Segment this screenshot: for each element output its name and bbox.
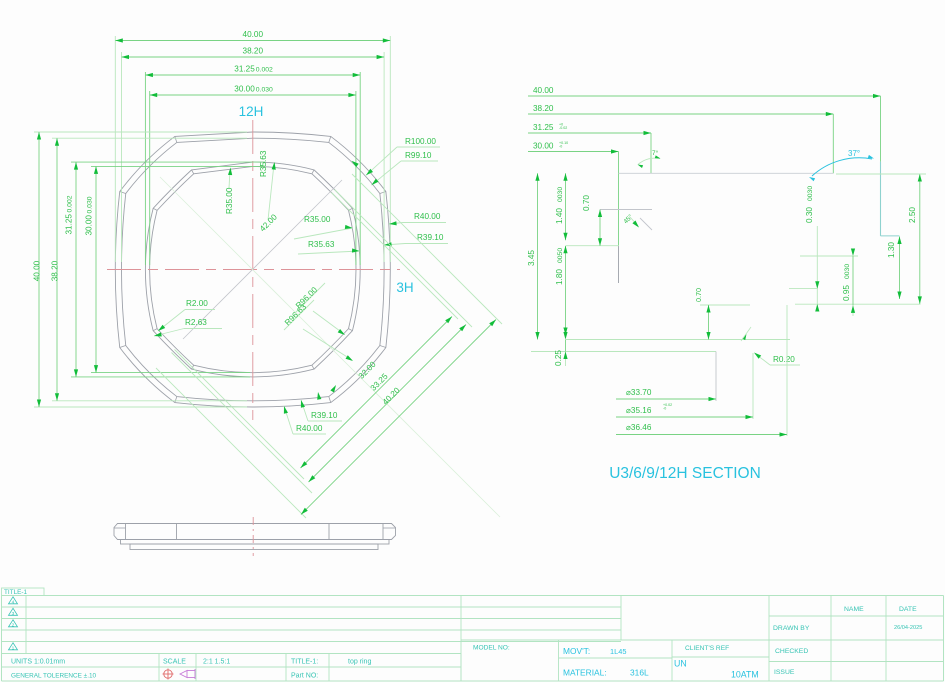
svg-text:ISSUE: ISSUE [774, 669, 795, 676]
svg-text:GENERAL TOLERENCE ±.10: GENERAL TOLERENCE ±.10 [11, 673, 97, 680]
section profile lines bottom [531, 210, 921, 464]
radius label R39.10 [384, 233, 448, 246]
radius label R99.10 [372, 151, 439, 185]
svg-text:TITLE-1: TITLE-1 [4, 589, 28, 596]
svg-text:0030: 0030 [807, 186, 814, 201]
symbol first-angle target [163, 669, 174, 680]
side view step 1 [121, 540, 390, 545]
svg-text:12H: 12H [239, 104, 264, 119]
radius label R96.63 (diagonal) [283, 300, 353, 361]
svg-text:0.002: 0.002 [67, 195, 74, 212]
svg-text:4: 4 [12, 600, 15, 606]
dim 40.00 top [115, 30, 390, 42]
svg-text:37°: 37° [848, 149, 860, 158]
section ext verticals top [619, 96, 881, 246]
svg-text:1: 1 [12, 646, 15, 652]
svg-text:30.00: 30.00 [533, 141, 554, 150]
dim 31.25 left [65, 162, 79, 377]
inner opening top edge contour (31.25 sq) [145, 162, 360, 377]
svg-text:R35.63: R35.63 [259, 150, 268, 177]
svg-text:U3/6/9/12H SECTION: U3/6/9/12H SECTION [609, 465, 761, 482]
svg-text:0.95: 0.95 [842, 285, 851, 301]
diagonal construction line NW-SE [160, 177, 500, 517]
svg-text:⌀33.70: ⌀33.70 [626, 388, 652, 397]
svg-text:40.00: 40.00 [243, 30, 264, 39]
section dim 31.25 [528, 122, 651, 135]
svg-text:38.20: 38.20 [51, 260, 60, 281]
svg-text:38.20: 38.20 [243, 47, 264, 56]
section dim 38.20 [528, 104, 833, 116]
diagonal construction line NE-SW [183, 180, 342, 339]
revision rows [2, 596, 622, 654]
svg-text:R40.00: R40.00 [414, 212, 441, 221]
dim 40.20 diagonal [301, 320, 496, 515]
svg-text:0.70: 0.70 [694, 288, 703, 302]
section ext verticals bottom [716, 305, 787, 436]
svg-text:DATE: DATE [899, 606, 917, 613]
svg-text:38.20: 38.20 [533, 104, 554, 113]
svg-text:2: 2 [12, 623, 15, 629]
dim 33.25 diagonal [309, 325, 467, 483]
svg-text:0050: 0050 [557, 248, 564, 263]
right table cells [769, 596, 944, 682]
svg-text:0.70: 0.70 [582, 195, 591, 211]
svg-text:31.25: 31.25 [533, 123, 554, 132]
section small angle arrow [741, 327, 751, 341]
dim 32.00 diagonal [301, 317, 453, 469]
section profile bore wall [618, 246, 620, 283]
svg-text:3: 3 [12, 611, 15, 617]
svg-text:1L45: 1L45 [610, 647, 626, 656]
radius label R2.00 [158, 299, 215, 331]
svg-text:MATERIAL:: MATERIAL: [563, 668, 607, 678]
extension lines top dims [115, 36, 390, 265]
section dim dia36.46 [616, 423, 787, 437]
svg-text:1.40: 1.40 [555, 208, 564, 224]
section angle 7deg [638, 149, 661, 168]
section dim 1.80 [555, 246, 568, 335]
title tab TITLE-1 [2, 588, 45, 596]
section dim 30.00 [528, 141, 619, 154]
radius label R100.00 [366, 137, 440, 175]
side view center line [252, 517, 254, 556]
section radius R0.20 [754, 353, 800, 366]
section dim dia33.70 [616, 388, 716, 401]
svg-text:3.45: 3.45 [527, 250, 536, 266]
svg-text:31.25: 31.25 [65, 214, 74, 235]
section dim 40.00 [528, 86, 881, 98]
dim 30.00 top [150, 85, 356, 97]
svg-text:R35.00: R35.00 [304, 215, 331, 224]
svg-text:Part NO:: Part NO: [291, 673, 318, 680]
svg-text:R39.10: R39.10 [417, 233, 444, 242]
svg-text:0.030: 0.030 [256, 87, 273, 94]
svg-text:0.002: 0.002 [256, 67, 273, 74]
svg-text:CLIENT'S REF: CLIENT'S REF [685, 645, 729, 652]
svg-text:DRAWN BY: DRAWN BY [773, 625, 810, 632]
svg-text:2:1 1.5:1: 2:1 1.5:1 [203, 659, 230, 666]
dim 38.20 left [51, 138, 60, 401]
svg-text:MODEL NO:: MODEL NO: [473, 645, 510, 652]
svg-text:7°: 7° [652, 149, 659, 157]
svg-text:2.50: 2.50 [908, 207, 917, 223]
svg-text:30.00: 30.00 [85, 215, 94, 236]
middle table cells [461, 596, 944, 682]
section dim 1.40 [555, 173, 568, 240]
revision triangles [9, 597, 18, 652]
section dim 0.95 [842, 249, 855, 317]
radius label R2.63 [154, 318, 222, 337]
svg-text:R35.00: R35.00 [225, 187, 234, 214]
svg-text:R0.20: R0.20 [773, 355, 795, 364]
radius label R39.10 (bottom) [301, 400, 342, 421]
svg-text:R2.00: R2.00 [186, 299, 208, 308]
section angle 37deg (cyan) [809, 149, 874, 181]
svg-text:UN: UN [674, 659, 687, 669]
section profile chamfer 45 [640, 218, 652, 230]
section dim dia35.16 [616, 403, 753, 419]
radius label R96.00 (diagonal) [294, 283, 345, 335]
svg-text:UNITS 1:0.01mm: UNITS 1:0.01mm [11, 659, 65, 666]
section profile outer wall (teal) [881, 162, 900, 236]
svg-text:40.00: 40.00 [533, 86, 554, 95]
section dim 0.70 bottom [694, 288, 711, 340]
svg-text:MOV'T:: MOV'T: [563, 646, 590, 656]
svg-text:R2.63: R2.63 [185, 318, 207, 327]
inner opening bottom edge contour (30.00 sq) [150, 166, 356, 372]
svg-text:1.80: 1.80 [555, 269, 564, 285]
outer bezel inner edge contour (R99.10/R39.10, 38.20 sq) [121, 138, 384, 401]
svg-text:0030: 0030 [557, 187, 564, 202]
radius label R40.00 (bottom) [284, 406, 326, 434]
svg-text:CHECKED: CHECKED [775, 648, 808, 655]
svg-text:R99.10: R99.10 [405, 151, 432, 160]
section dim 0.70 left [582, 195, 602, 246]
horizontal center line (red) [107, 269, 400, 271]
dim 30.00 left [85, 166, 99, 372]
side view step 2 [130, 544, 378, 550]
outer bezel contour (R100/R40, 40.00 sq) [115, 132, 390, 407]
svg-text:10ATM: 10ATM [731, 670, 759, 680]
bevel facet break ticks [120, 136, 386, 402]
svg-text:3H: 3H [396, 280, 413, 295]
svg-text:40.00: 40.00 [33, 260, 42, 281]
svg-text:R40.00: R40.00 [296, 424, 323, 433]
section chamfer note 45deg [622, 213, 639, 228]
title block frame [2, 596, 944, 682]
svg-text:26/04-2025: 26/04-2025 [894, 625, 922, 631]
svg-text:NAME: NAME [844, 606, 864, 613]
svg-text:31.25: 31.25 [234, 65, 255, 74]
svg-text:0.25: 0.25 [554, 350, 563, 366]
svg-text:TITLE-1:: TITLE-1: [291, 659, 318, 666]
radius label R35.63 (right) [298, 240, 360, 254]
extra corner arrow [352, 161, 359, 167]
svg-text:SCALE: SCALE [163, 659, 186, 666]
vertical center line (red) [252, 120, 254, 420]
svg-text:⌀35.16: ⌀35.16 [626, 406, 652, 415]
radius label R35.63 (vertical) [259, 150, 276, 220]
section dim 2.50 [836, 174, 926, 304]
svg-text:top ring: top ring [348, 659, 371, 666]
svg-text:-0.02: -0.02 [559, 126, 567, 130]
svg-text:-0: -0 [559, 145, 562, 149]
dim 38.20 top [122, 47, 385, 59]
symbol projection cone [180, 669, 195, 679]
svg-text:316L: 316L [630, 668, 649, 678]
section profile top face [619, 172, 834, 174]
svg-text:⌀36.46: ⌀36.46 [626, 423, 652, 432]
radius label R35.00 (right) [294, 215, 353, 239]
dim 40.00 left [33, 132, 42, 407]
svg-text:R35.63: R35.63 [308, 240, 335, 249]
svg-text:R39.10: R39.10 [311, 411, 338, 420]
svg-text:30.00: 30.00 [234, 85, 255, 94]
svg-text:0.30: 0.30 [805, 207, 814, 223]
section dim 1.30 [887, 237, 902, 300]
left table cells [2, 596, 462, 682]
radius label R35.00 (vertical) [225, 168, 234, 215]
section dim 0.25 [554, 332, 568, 366]
svg-text:1.30: 1.30 [887, 242, 896, 258]
svg-text:0030: 0030 [844, 264, 851, 279]
extra contour arrows bottom [317, 385, 336, 400]
diagonal extension lines [156, 174, 502, 518]
radius label R40.00 [389, 212, 446, 225]
extension lines left dims [34, 132, 265, 407]
section dim 3.45 [527, 173, 540, 339]
svg-text:-0: -0 [663, 407, 666, 411]
section dim 0.30 [805, 186, 819, 312]
svg-text:R100.00: R100.00 [405, 137, 436, 146]
side view top ring profile [114, 524, 396, 540]
dim 31.25 top [145, 65, 360, 77]
svg-text:0.030: 0.030 [87, 196, 94, 213]
